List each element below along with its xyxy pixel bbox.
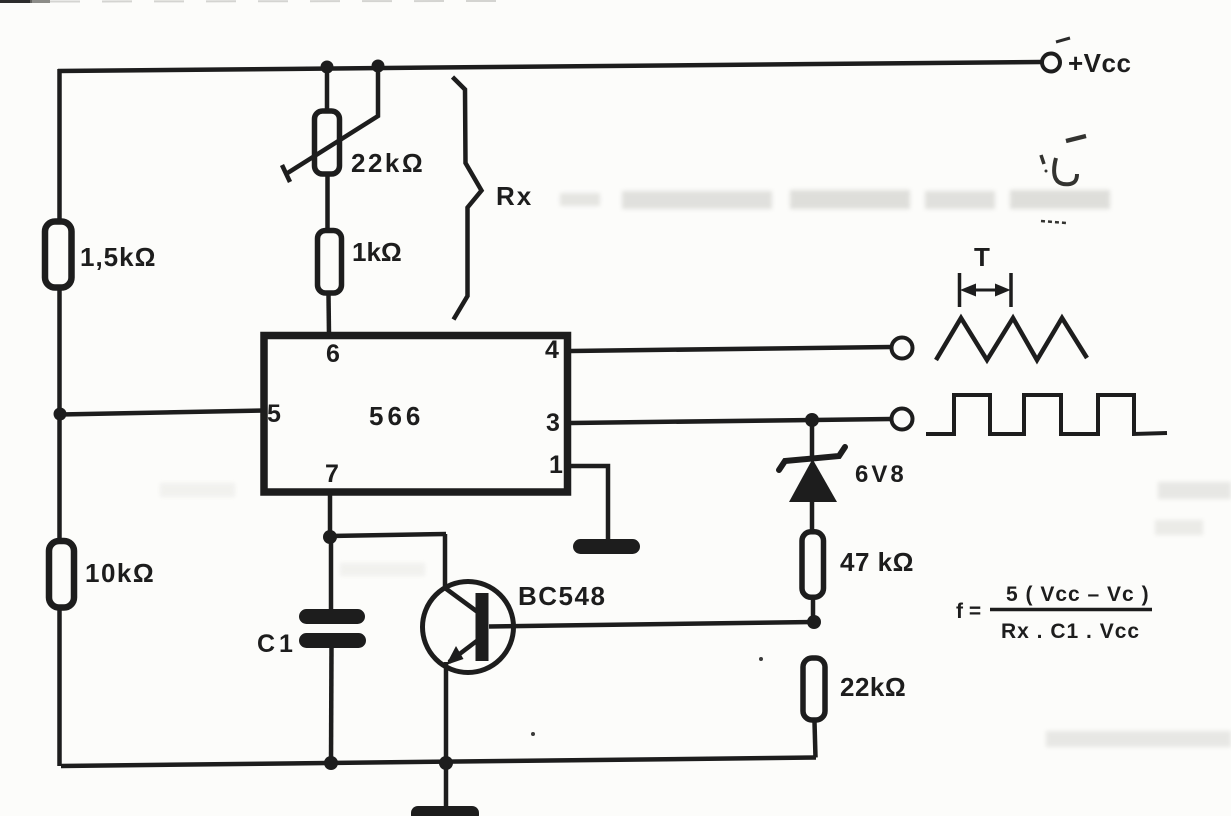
svg-text:10kΩ: 10kΩ <box>85 558 155 588</box>
svg-text:1,5kΩ: 1,5kΩ <box>80 242 156 272</box>
wire pin7 to collector <box>330 534 446 536</box>
+Vcc terminal <box>1042 54 1060 72</box>
wire pin1 to ground <box>571 466 608 540</box>
wire bottom ground lead <box>444 764 449 808</box>
period marker T arrows <box>960 273 1012 307</box>
waveform triangle wave <box>936 318 1087 360</box>
resistor R2 10k <box>49 541 74 608</box>
wire zener to 47k <box>810 500 815 531</box>
svg-text:f =: f = <box>956 600 981 623</box>
dot artifact <box>531 732 535 736</box>
resistor R1 1,5k <box>45 222 72 288</box>
terminal pin3 output <box>892 409 913 430</box>
wire pot to 1k <box>325 175 330 229</box>
svg-text:7: 7 <box>325 460 339 488</box>
resistor R3 1k <box>318 231 342 294</box>
svg-text:5 ( Vcc – Vc ): 5 ( Vcc – Vc ) <box>1006 583 1150 606</box>
svg-text:Rx . C1 . Vcc: Rx . C1 . Vcc <box>1001 620 1140 643</box>
capacitor C1 bottom plate <box>299 633 366 648</box>
svg-text:1kΩ: 1kΩ <box>352 237 402 267</box>
svg-text:47 kΩ: 47 kΩ <box>840 547 914 577</box>
scan smudge pen mark <box>1041 136 1086 223</box>
wire top rail <box>58 62 1041 71</box>
op-amp/IC U1 566 box <box>264 336 568 493</box>
wire top rail to potentiometer <box>325 67 330 110</box>
junction node base divider <box>807 615 821 629</box>
wire pin4 output <box>571 347 891 351</box>
junction node top rail A <box>321 61 334 74</box>
svg-text:3: 3 <box>546 409 560 437</box>
potentiometer P1 22k body <box>315 111 340 174</box>
svg-text:6: 6 <box>326 340 340 368</box>
ground (pin1) <box>573 539 640 554</box>
wire base lead <box>489 622 814 627</box>
svg-text:4: 4 <box>545 336 559 364</box>
svg-text:BC548: BC548 <box>518 581 606 611</box>
wire 22k to bottom rail <box>815 722 816 758</box>
zener diode D1 anode triangle <box>789 459 837 502</box>
wire pin7 down <box>328 493 333 539</box>
potentiometer P1 wiper arm <box>282 66 378 182</box>
zener diode D1 cathode bar <box>779 447 845 470</box>
wire pin3 output <box>571 419 891 423</box>
svg-text:C1: C1 <box>257 630 297 658</box>
resistor R5 22k <box>803 658 825 720</box>
junction node emitter / bottom rail <box>439 756 453 770</box>
junction node pin7 <box>323 530 337 544</box>
junction node pin5 / left rail <box>54 408 67 421</box>
svg-text:6V8: 6V8 <box>855 461 907 488</box>
svg-text:5: 5 <box>267 400 281 428</box>
wire pin5 <box>60 411 264 415</box>
transistor Q1 BC548 <box>423 582 514 765</box>
wire zener top <box>810 420 815 458</box>
wire C1 bottom lead <box>329 646 334 764</box>
svg-text:1: 1 <box>549 451 563 479</box>
terminal pin4 output <box>892 338 913 359</box>
junction node C1 / bottom rail <box>324 756 338 770</box>
bleed-through text row upper right <box>560 190 1110 209</box>
wire 47k to base node <box>811 598 816 624</box>
svg-text:T: T <box>974 242 990 272</box>
pen tick above Vcc <box>1056 38 1070 42</box>
svg-text:22kΩ: 22kΩ <box>351 148 425 178</box>
formula f = 5(Vcc-Vc)/(Rx.C1.Vcc) <box>956 583 1152 643</box>
bleed-through right margin rows <box>160 482 1231 747</box>
wire collector lead <box>443 534 448 589</box>
wire left rail <box>57 69 62 766</box>
svg-text:566: 566 <box>369 401 424 431</box>
svg-text:Rx: Rx <box>496 181 533 211</box>
scan artifact top edge bar <box>0 0 500 3</box>
svg-text:+Vcc: +Vcc <box>1068 48 1131 78</box>
resistor R4 47k <box>802 532 824 598</box>
capacitor C1 top plate <box>299 609 365 624</box>
brace Rx <box>453 77 482 320</box>
wire C1 top lead <box>329 537 334 611</box>
junction node zener tap <box>805 413 819 427</box>
junction node top rail B <box>372 60 385 73</box>
dot artifact 2 <box>759 657 763 661</box>
svg-text:22kΩ: 22kΩ <box>840 672 906 702</box>
waveform square wave <box>926 395 1167 434</box>
wire 1k to pin6 <box>326 294 331 335</box>
ground (bottom) <box>411 806 479 816</box>
wire bottom rail <box>61 758 816 767</box>
